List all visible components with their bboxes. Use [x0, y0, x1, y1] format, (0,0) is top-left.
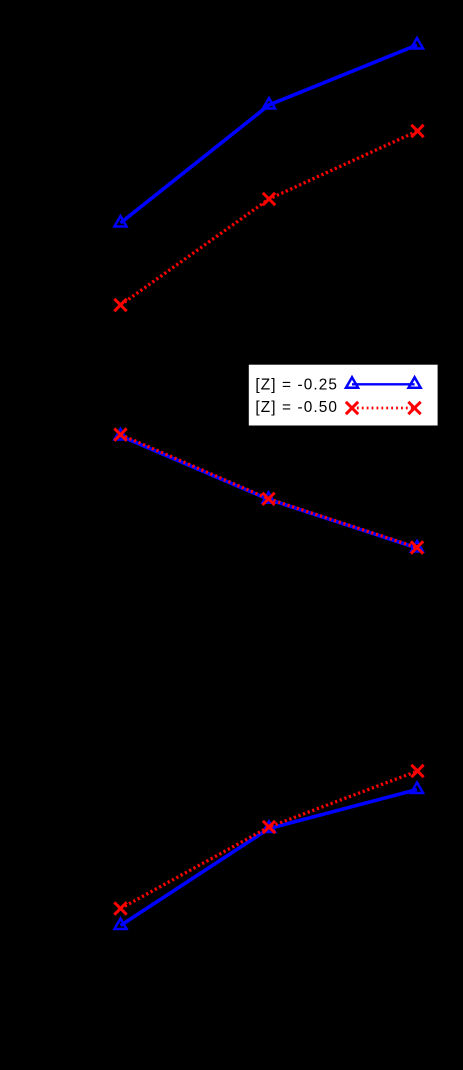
- svg-text:[Z] = -0.25: [Z] = -0.25: [255, 377, 338, 394]
- svg-text:[Z] = -0.50: [Z] = -0.50: [255, 399, 338, 416]
